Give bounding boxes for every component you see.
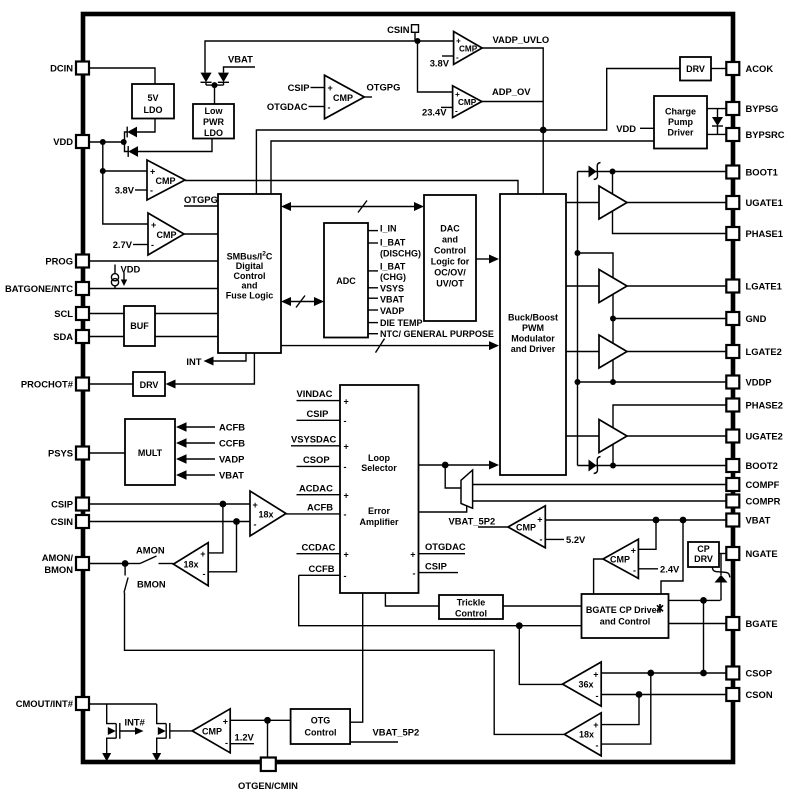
svg-text:Buck/Boost: Buck/Boost: [508, 313, 558, 323]
wire CMP4 output, net VADP_UVLO: [482, 34, 549, 130]
signal CSOP input: [297, 454, 341, 466]
svg-text:OC/OV/: OC/OV/: [434, 268, 466, 278]
svg-text:VBAT: VBAT: [380, 294, 404, 304]
svg-text:+: +: [151, 220, 156, 230]
node CSIN junction: [233, 518, 240, 525]
svg-text:UGATE1: UGATE1: [746, 197, 783, 208]
signal OTGDAC input (right side): [419, 541, 466, 554]
svg-text:BUF: BUF: [130, 321, 149, 331]
wire CSIP junction to AMON amp +: [208, 504, 223, 553]
svg-text:PROCHOT#: PROCHOT#: [21, 379, 74, 390]
svg-text:-: -: [344, 571, 347, 581]
node AMON/BMON junction: [122, 560, 129, 567]
wire driver 4 return to BOOT2: [612, 445, 614, 466]
svg-text:2.7V: 2.7V: [113, 239, 133, 250]
svg-text:Selector: Selector: [361, 463, 397, 473]
driver DRV (ACOK): [680, 57, 711, 81]
svg-text:and Control: and Control: [600, 617, 651, 627]
label VDD with stub to Charge Pump: [616, 123, 654, 134]
pin VDDP: [726, 376, 771, 389]
regulator 5V LDO: [132, 84, 174, 119]
wire error amp block to Trickle Control: [385, 593, 439, 606]
wire loop output junction to mux input: [445, 465, 461, 488]
wire OTGEN junction to OTGEN/CMIN pin: [267, 720, 269, 757]
svg-text:18x: 18x: [579, 730, 594, 740]
svg-text:Modulator: Modulator: [511, 334, 555, 344]
svg-text:+: +: [593, 720, 598, 730]
wire CMP7 output to BGATE CP block: [594, 559, 603, 594]
svg-text:BMON: BMON: [137, 579, 166, 590]
comparator CMP6 (VBAT 5.2V): [508, 506, 545, 548]
block BGATE CP Driver and Control: [582, 594, 669, 638]
svg-text:BYPSG: BYPSG: [746, 103, 779, 114]
svg-text:OTGPG: OTGPG: [367, 82, 401, 93]
wire BGATE CP block to diode/CSOP rail: [669, 599, 721, 601]
pin PROCHOT#: [21, 378, 89, 391]
signal ACDAC input: [297, 483, 341, 495]
node loop output junction: [442, 462, 449, 469]
pin COMPF: [726, 478, 779, 491]
svg-text:VSYS: VSYS: [380, 283, 404, 293]
svg-text:PHASE1: PHASE1: [746, 228, 784, 239]
current source I VDD (PROG): [111, 264, 140, 290]
diode D3 (CSIN to Low PWR LDO): [201, 73, 212, 86]
svg-text:Loop: Loop: [368, 453, 390, 463]
svg-text:(DISCHG): (DISCHG): [380, 249, 421, 259]
svg-text:3.8V: 3.8V: [115, 185, 135, 196]
wire error amplifier output to mux: [419, 506, 467, 513]
svg-text:VBAT: VBAT: [228, 54, 253, 65]
pin VDD: [53, 135, 89, 148]
wire loop selector output to Buck/Boost with arrow: [419, 461, 500, 470]
value 3.8V with stub to CMP4 - input: [430, 56, 454, 69]
wire CSON junction to 18x +: [601, 695, 639, 725]
svg-text:18x: 18x: [183, 560, 198, 570]
value 2.4V with stub to CMP7 -: [638, 564, 680, 575]
signal CCDAC input: [297, 542, 341, 554]
value 2.7V with stub to CMP2 - input: [113, 239, 148, 250]
wire CSIP pin to 18x +: [89, 503, 250, 505]
wire PHASE2 row to driver 4 top: [613, 405, 726, 428]
svg-text:1.2V: 1.2V: [235, 732, 255, 743]
svg-text:Charge: Charge: [665, 107, 696, 117]
svg-text:BGATE: BGATE: [746, 618, 778, 629]
wire CSIN pin to 18x -: [89, 521, 250, 523]
wire adapter status rail A (to SMBus and ACOK DRV): [256, 69, 680, 195]
svg-text:AMON: AMON: [136, 545, 165, 556]
comparator CMP1 (VDD 3.8V): [147, 160, 185, 200]
wire junction down to CSOP row: [703, 600, 705, 673]
svg-text:VBAT_5P2: VBAT_5P2: [373, 727, 420, 738]
value 5.2V with stub to CMP6 -: [545, 534, 586, 545]
wire VBAT pin row to CMP6 +: [545, 519, 726, 521]
svg-text:-: -: [596, 741, 599, 751]
svg-text:CP: CP: [697, 544, 710, 554]
block OTG Control: [291, 709, 351, 744]
svg-text:+: +: [631, 546, 636, 556]
wire CSIN top rail: [205, 41, 454, 73]
svg-text:CCFB: CCFB: [219, 438, 245, 449]
svg-text:+: +: [223, 717, 228, 727]
block ADC: [324, 223, 368, 338]
pin CSIP: [51, 498, 89, 511]
wire VBAT junction to BGATE CP block top: [661, 520, 683, 594]
pin UGATE2: [726, 430, 783, 443]
pin PHASE2: [726, 399, 783, 412]
svg-text:I_BAT: I_BAT: [380, 238, 406, 248]
pin SCL: [54, 307, 89, 320]
signal CSIP input: [297, 408, 341, 420]
svg-text:VDDP: VDDP: [746, 377, 772, 388]
wire VDDP bootstrap rail: [577, 172, 579, 466]
wire to CMP1 + input: [103, 170, 147, 172]
svg-text:Trickle: Trickle: [457, 598, 486, 608]
svg-text:3.8V: 3.8V: [430, 58, 450, 69]
svg-text:+: +: [455, 90, 460, 99]
svg-text:CMP: CMP: [156, 176, 176, 186]
svg-text:+: +: [410, 550, 415, 560]
svg-text:-: -: [150, 186, 153, 196]
svg-text:NGATE: NGATE: [746, 548, 778, 559]
svg-text:+: +: [456, 37, 461, 46]
node VDD junction 2: [121, 139, 127, 145]
svg-text:-: -: [203, 569, 206, 579]
wire CCFB junction to 36x output: [519, 626, 562, 685]
svg-text:SMBus/I2C: SMBus/I2C: [227, 251, 273, 262]
block Loop Selector / Error Amplifier: [340, 385, 419, 593]
svg-text:MULT: MULT: [138, 448, 163, 458]
wire diode cathodes junction to VDD: [125, 132, 129, 152]
svg-text:GND: GND: [746, 313, 767, 324]
pin BYPSG: [726, 102, 778, 115]
wire VDDP row: [578, 381, 727, 383]
svg-text:COMPF: COMPF: [746, 479, 780, 490]
node BGATE CP output junction: [700, 597, 707, 604]
pin CSOP: [726, 667, 772, 680]
node ADP comparators junction: [540, 127, 547, 134]
svg-text:CMP: CMP: [333, 93, 353, 103]
svg-text:CCFB: CCFB: [309, 563, 335, 574]
svg-text:-: -: [456, 53, 459, 62]
wire driver 2 output to LGATE1: [627, 285, 726, 287]
wire CSIN junction down to CMP5 + input: [418, 41, 453, 92]
amplifier 36x (charge current sense): [563, 662, 602, 706]
svg-text:BGATE CP Driver: BGATE CP Driver: [586, 605, 661, 615]
diode D5 (BYPSG-BYPSRC): [712, 109, 723, 135]
regulator Low PWR LDO: [193, 104, 234, 139]
wire BUF to SMBus (SDA): [155, 336, 218, 338]
svg-text:and: and: [442, 235, 458, 245]
signal VINDAC input: [297, 388, 341, 401]
wire PROG pin to SMBus: [89, 260, 218, 262]
svg-text:-: -: [225, 738, 228, 748]
svg-text:CMP: CMP: [458, 98, 477, 107]
svg-text:Control: Control: [434, 246, 466, 256]
value 3.8V with stub to CMP1 - input: [115, 185, 147, 196]
wire GND junction to driver 3 top: [612, 319, 614, 344]
svg-text:DIE TEMP: DIE TEMP: [380, 318, 423, 328]
signal VADP into MULT: [176, 454, 244, 465]
transistor Q2 (comparator output): [157, 704, 172, 757]
signal ACFB into MULT: [176, 422, 245, 433]
svg-text:23.4V: 23.4V: [422, 107, 447, 118]
pin OTGEN/CMIN: [238, 758, 298, 792]
signal I_BAT (DISCHG): [368, 238, 421, 259]
svg-text:CMOUT/INT#: CMOUT/INT#: [16, 698, 74, 709]
wire CCFB net to BGATE CP block: [299, 575, 582, 625]
wire SDA pin to BUF: [89, 336, 124, 338]
svg-text:PROG: PROG: [45, 256, 73, 267]
svg-text:VINDAC: VINDAC: [297, 388, 333, 399]
wire INT output with arrow: [186, 353, 246, 367]
diode D2 (Low PWR LDO ORing): [128, 146, 138, 157]
wire rail to driver 2 top: [578, 253, 614, 278]
svg-text:BYPSRC: BYPSRC: [746, 129, 785, 140]
comparator CMP4 (VADP_UVLO 3.8V): [454, 32, 483, 65]
wire CSIN junction to AMON amp -: [208, 522, 236, 572]
node VBAT junction 2: [680, 517, 687, 524]
svg-text:-: -: [633, 566, 636, 576]
diode D1 (5V LDO ORing): [127, 127, 137, 138]
driver U1 (UGATE1): [599, 186, 627, 219]
amplifier 18x (battery discharge sense): [564, 713, 601, 756]
svg-text:CSIP: CSIP: [425, 561, 447, 572]
svg-text:+: +: [344, 491, 349, 501]
signal I_BAT (CHG): [368, 262, 406, 283]
svg-text:CSIP: CSIP: [288, 82, 310, 93]
wire PWM to driver 3 input: [566, 351, 599, 353]
svg-text:+: +: [344, 442, 349, 452]
pin LGATE1: [726, 280, 781, 293]
pin DCIN: [50, 62, 89, 75]
pin NGATE: [726, 547, 777, 560]
chip boundary frame: [83, 14, 733, 762]
wire PWM to driver 1 input: [566, 202, 599, 204]
wire BMON to 18x output amp: [125, 593, 565, 735]
pin SDA: [53, 330, 89, 343]
wire driver 1 return to PHASE1: [613, 211, 727, 234]
node CSON junction: [636, 691, 643, 698]
wire CMP3 output stub, net OTGPG: [364, 82, 400, 98]
amplifier 18x (AMON/BMON monitor): [173, 543, 208, 586]
switch AMON: [125, 545, 165, 564]
pin GND: [726, 312, 766, 325]
node OTGEN junction: [264, 717, 271, 724]
svg-text:VDD: VDD: [53, 136, 73, 147]
pin CSIN: [51, 515, 89, 528]
svg-text:+: +: [328, 83, 333, 93]
diode D7 (bootstrap BOOT2): [589, 457, 601, 474]
wire 5V LDO output to diode D1: [137, 119, 155, 133]
signal VSYS: [368, 283, 404, 293]
svg-text:ACFB: ACFB: [219, 422, 245, 433]
pin VBAT: [726, 514, 770, 527]
pin BOOT2: [726, 459, 777, 472]
wire error amp block to OTG Control: [350, 593, 363, 722]
svg-text:+: +: [537, 515, 542, 525]
svg-text:UGATE2: UGATE2: [746, 431, 783, 442]
pin BOOT1: [726, 166, 777, 179]
svg-text:Low: Low: [205, 106, 224, 116]
node VDD junction 1: [100, 139, 106, 145]
svg-text:(CHG): (CHG): [380, 272, 406, 282]
wire AMON amp output to switch: [159, 563, 174, 565]
pin LGATE2: [726, 345, 781, 358]
svg-text:LDO: LDO: [204, 128, 223, 138]
svg-text:LDO: LDO: [144, 105, 163, 115]
svg-text:-: -: [254, 520, 257, 530]
wire driver 4 output to UGATE2: [627, 435, 726, 437]
svg-text:NTC/ GENERAL PURPOSE: NTC/ GENERAL PURPOSE: [380, 329, 494, 339]
svg-text:VBAT_5P2: VBAT_5P2: [449, 516, 496, 527]
signal CCFB into MULT: [176, 438, 245, 449]
ground arrow Q2: [152, 753, 161, 762]
driver U3 (LGATE2): [599, 335, 627, 368]
svg-text:DRV: DRV: [140, 380, 159, 390]
wire CMP8 + / OTGEN row: [230, 719, 290, 721]
multiplier MULT: [125, 419, 175, 485]
node CSOP junction 2: [700, 670, 707, 677]
comparator CMP3 (OTGPG: CSIP vs OTGDAC): [325, 75, 365, 119]
svg-text:UV/OT: UV/OT: [436, 279, 464, 289]
svg-text:BATGONE/NTC: BATGONE/NTC: [5, 283, 73, 294]
wire driver 3 output to LGATE2: [627, 351, 726, 353]
wire CP DRV to NGATE: [719, 553, 726, 555]
wire PWM to driver 4 input: [566, 435, 599, 437]
svg-text:VDD: VDD: [121, 264, 141, 275]
signal VSYSDAC input: [291, 434, 340, 446]
svg-text:ACDAC: ACDAC: [299, 483, 333, 494]
wire mux to COMPF: [473, 484, 727, 486]
svg-text:ADP_OV: ADP_OV: [492, 86, 531, 97]
wire CSOP junction to 18x -: [601, 673, 651, 744]
svg-text:INT: INT: [186, 356, 201, 367]
block Charge Pump Driver: [654, 96, 707, 149]
comparator CMP8 (CMIN 1.2V): [192, 709, 230, 753]
svg-text:CMP: CMP: [157, 230, 177, 240]
node CSOP junction 1: [647, 670, 654, 677]
pin BATGONE/NTC: [5, 282, 89, 295]
wire CMP6 output, net VBAT_5P2: [449, 516, 509, 528]
svg-text:OTGEN/CMIN: OTGEN/CMIN: [238, 780, 298, 791]
wire OTGPG input to SMBus: [184, 194, 218, 206]
block Buck/Boost PWM Modulator and Driver: [500, 194, 566, 475]
svg-text:-: -: [455, 107, 458, 116]
svg-text:+: +: [253, 500, 258, 510]
pin COMPR: [726, 495, 780, 508]
bus NTC/GENERAL PURPOSE to Buck/Boost (with slash): [281, 339, 499, 353]
svg-text:-: -: [596, 691, 599, 701]
svg-text:OTGPG: OTGPG: [184, 194, 218, 205]
svg-text:-: -: [344, 416, 347, 426]
wire VBAT stub to D4: [224, 54, 256, 73]
wire rail B (SMBus to Charge Pump Driver): [271, 141, 654, 194]
svg-text:-: -: [151, 240, 154, 250]
svg-text:ACOK: ACOK: [746, 63, 774, 74]
svg-text:Fuse Logic: Fuse Logic: [226, 290, 274, 300]
svg-text:2.4V: 2.4V: [660, 564, 680, 575]
svg-text:Pump: Pump: [668, 117, 694, 127]
signal VBAT into MULT: [176, 470, 244, 481]
comparator CMP5 (ADP_OV 23.4V): [453, 86, 482, 118]
block Trickle Control: [439, 595, 503, 619]
wire Trickle Control to BGATE CP block: [503, 605, 582, 607]
svg-text:CSOP: CSOP: [746, 668, 773, 679]
wire SCL pin to BUF: [89, 313, 124, 315]
wire CSON row to 36x -: [601, 694, 726, 696]
wire CMP8 output to MOSFET Q2 gate: [172, 730, 192, 732]
svg-text:SDA: SDA: [53, 331, 73, 342]
driver DRV (PROCHOT#): [133, 372, 165, 396]
svg-text:PWM: PWM: [522, 323, 544, 333]
node VDDP junction: [610, 379, 616, 385]
label CSIP with stub to CMP3 +: [288, 82, 325, 93]
wire BYPSRC: [707, 133, 726, 135]
signal NTC/ GENERAL PURPOSE: [368, 329, 494, 339]
block DAC and Control Logic: [424, 195, 476, 321]
svg-text:VBAT: VBAT: [219, 470, 244, 481]
svg-text:+: +: [344, 397, 349, 407]
svg-text:PHASE2: PHASE2: [746, 400, 784, 411]
svg-text:CSIP: CSIP: [51, 499, 73, 510]
value 23.4V with stub to CMP5 - input: [422, 107, 453, 118]
pin marker CSIN (top): [387, 24, 418, 41]
wire PSYS pin to MULT: [89, 452, 125, 454]
wire CMP5 output, net ADP_OV: [482, 86, 543, 102]
node CSIP junction: [220, 501, 227, 508]
svg-text:ADC: ADC: [336, 276, 356, 286]
svg-text:and: and: [241, 281, 257, 291]
svg-text:DAC: DAC: [440, 224, 460, 234]
wire BOOT2 row: [578, 465, 727, 467]
svg-text:AMON/: AMON/: [42, 552, 74, 563]
wire Low PWR LDO output to diode D2: [138, 139, 212, 152]
svg-text:OTGDAC: OTGDAC: [267, 101, 308, 112]
svg-text:+: +: [200, 549, 205, 559]
svg-text:INT#: INT#: [125, 717, 146, 728]
block CP DRV: [688, 542, 719, 567]
comparator CMP7 (VBAT 2.4V): [603, 539, 638, 578]
wire SMBus to PROCHOT DRV: [166, 353, 255, 389]
block SMBus/I2C Digital Control and Fuse Logic: [218, 194, 281, 353]
node VBAT junction 1: [653, 517, 660, 524]
wire CSOP row to 36x +: [601, 672, 726, 674]
signal DIE TEMP: [368, 318, 423, 328]
signal CCFB input: [299, 563, 340, 575]
svg-text:Control: Control: [234, 271, 266, 281]
svg-text:5.2V: 5.2V: [566, 534, 586, 545]
diode D8 (NGATE): [712, 554, 730, 601]
svg-text:I_IN: I_IN: [380, 224, 397, 234]
bus SMBus to DAC (bidirectional with slash): [281, 201, 424, 213]
buffer BUF: [124, 306, 155, 346]
svg-text:CSIN: CSIN: [387, 24, 410, 35]
svg-text:Digital: Digital: [236, 261, 264, 271]
svg-text:and Driver: and Driver: [511, 344, 556, 354]
node BOOT2 junction: [610, 463, 616, 469]
svg-text:Amplifier: Amplifier: [359, 517, 399, 527]
wire BYPSG: [707, 108, 726, 110]
switch BMON: [124, 564, 166, 593]
wire CMP1 output to Buck/Boost top: [185, 181, 518, 195]
pin PROG: [45, 255, 89, 268]
wire BOOT1 row: [578, 171, 727, 173]
wire BUF to SMBus (SCL): [155, 313, 218, 315]
signal ACFB input (from 18x amp): [286, 502, 340, 514]
svg-text:PWR: PWR: [203, 117, 224, 127]
pin PSYS: [48, 447, 89, 460]
wire BOOT1 junction to driver 1 top: [612, 172, 614, 195]
